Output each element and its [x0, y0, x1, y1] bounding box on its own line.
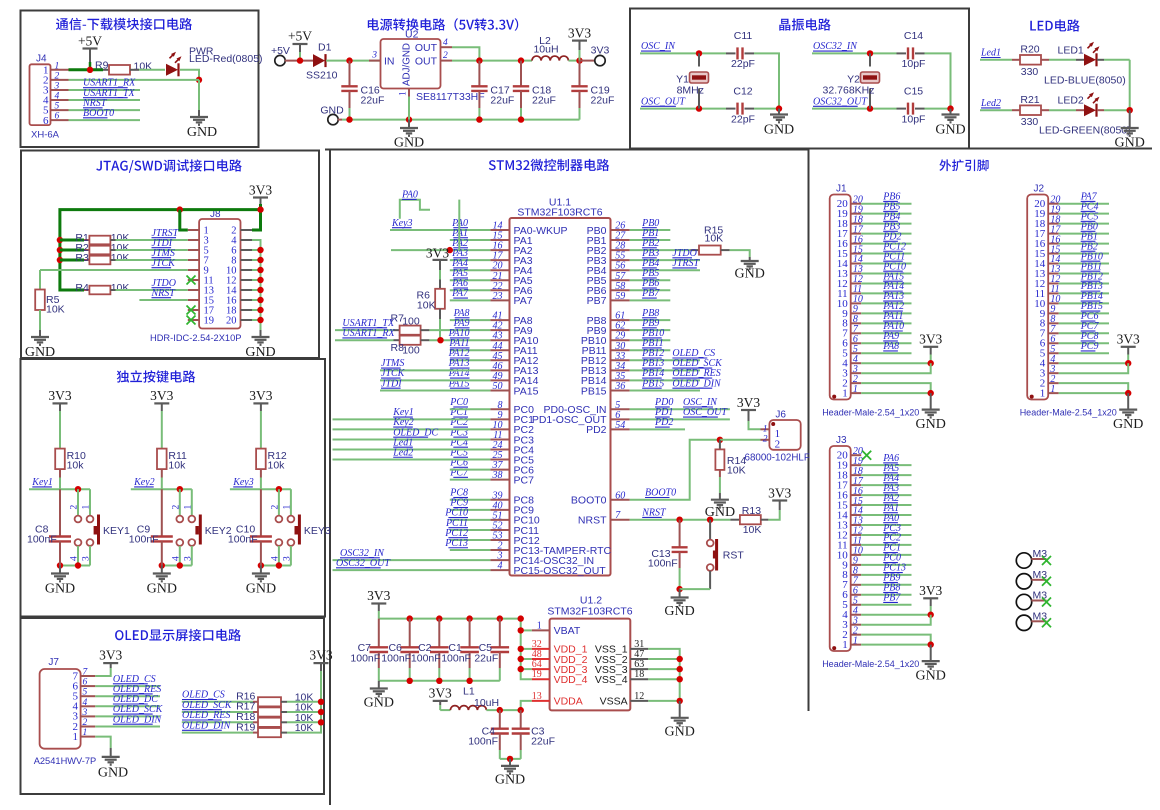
- wire D1 to U2 IN: [326, 60, 380, 62]
- wire J1 pin11 PA14: [861, 292, 911, 294]
- wire J2 pin19 PC4: [1059, 213, 1109, 215]
- wire PB3: [630, 259, 700, 261]
- capacitor C12 right lead: [745, 108, 755, 110]
- node PA5: [451, 268, 468, 279]
- J7 pin 6 stub: [81, 685, 96, 687]
- node OLED_DIN: [182, 720, 232, 731]
- svg-text:1: 1: [82, 505, 92, 510]
- J7 pin 3 stub: [81, 715, 96, 717]
- wire J1 pin12 PA15: [861, 282, 911, 284]
- node PC8: [449, 488, 468, 499]
- capacitor C7 bottom lead: [378, 652, 380, 668]
- capacitor C9 bottom lead: [161, 541, 163, 565]
- junction rail y=310: [257, 307, 263, 313]
- U1.1 pin 43 stub: [490, 339, 509, 341]
- U1.1 pin 33 stub: [611, 359, 630, 361]
- svg-text:PA8: PA8: [882, 341, 899, 352]
- wire U1.2 top rail: [379, 618, 521, 620]
- capacitor C16 bottom lead: [349, 91, 351, 108]
- LED LED1 left lead: [1076, 59, 1084, 61]
- node PA3: [882, 483, 899, 494]
- svg-text:GND: GND: [147, 582, 177, 597]
- wire J8 pin to rail y=270: [252, 269, 261, 271]
- capacitor C2 top lead: [438, 619, 440, 648]
- power 3V3 (power out): [568, 26, 591, 41]
- svg-text:HDR-IDC-2.54-2X10P: HDR-IDC-2.54-2X10P: [150, 333, 241, 343]
- svg-text:J3: J3: [836, 435, 847, 446]
- J2 pin 2 stub: [1048, 382, 1059, 384]
- node PC5: [1080, 211, 1099, 222]
- svg-text:3V3: 3V3: [919, 332, 942, 347]
- J8 pin 16 stub: [241, 299, 253, 301]
- svg-text:SE8117T33HF: SE8117T33HF: [416, 91, 485, 103]
- power 3V3 (PA2/R6): [426, 246, 449, 261]
- svg-text:1: 1: [282, 505, 292, 510]
- J8 pin 18 stub: [241, 309, 253, 311]
- wire J2 pin11 PB13: [1059, 292, 1109, 294]
- svg-text:100nF: 100nF: [350, 653, 380, 665]
- svg-text:1: 1: [399, 91, 409, 96]
- svg-text:GND: GND: [916, 417, 946, 432]
- ground (Y1): [764, 115, 794, 138]
- node PD0: [654, 397, 673, 408]
- wire PB7: [630, 299, 671, 301]
- J1 pin 11 stub: [851, 292, 862, 294]
- wire J8 pin to rail y=250: [252, 249, 261, 251]
- J8 pin 17 stub: [188, 309, 199, 311]
- U1.1 pin 60 stub: [611, 499, 630, 501]
- wire J3 pin11 PC2: [861, 544, 911, 546]
- svg-text:10K: 10K: [111, 282, 130, 294]
- wire OSC32_OUT: [812, 108, 897, 110]
- node PC10: [882, 261, 906, 272]
- J1 pin 2 stub: [851, 382, 862, 384]
- svg-text:3V3: 3V3: [99, 648, 122, 663]
- resistor R3 right stub: [110, 259, 115, 261]
- U1.1 pin 10 stub: [490, 428, 509, 430]
- wire PB11: [630, 349, 671, 351]
- node OLED_SCK: [672, 358, 723, 369]
- wire VSS rail: [648, 649, 679, 701]
- node Led2: [980, 98, 1001, 109]
- wire OSC_OUT: [640, 108, 726, 110]
- wire gnd stem: [161, 566, 163, 574]
- node PC7: [449, 467, 469, 478]
- ground (JTAG right): [245, 337, 275, 360]
- svg-text:60: 60: [615, 490, 625, 501]
- U1.1 pin 3 stub: [490, 559, 509, 561]
- J2 pin 1 stub: [1048, 392, 1059, 394]
- LED LED2 right lead: [1097, 109, 1104, 111]
- wire NRST row: [630, 519, 731, 521]
- svg-text:100nF: 100nF: [648, 557, 678, 569]
- power 3V3 (VDDA): [429, 686, 452, 701]
- node USART1_TX: [83, 88, 136, 99]
- wire gnd stem: [749, 257, 751, 261]
- wire J2 pin13 PB11: [1059, 272, 1109, 274]
- mounting hole M3 #2: [1016, 569, 1047, 589]
- capacitor C11 left lead: [726, 52, 736, 54]
- section frame: OLED box: [21, 618, 325, 794]
- wire KEY2 pin3 down: [191, 546, 193, 566]
- U1.1 pin 42 stub: [490, 329, 509, 331]
- U1.1 pin 4 stub: [490, 569, 509, 571]
- capacitor C10 top lead: [260, 489, 262, 536]
- wire PB6: [630, 289, 671, 291]
- section frame: STM32 area left border: [329, 150, 331, 806]
- node PB14: [1080, 291, 1103, 302]
- svg-text:J2: J2: [1034, 184, 1045, 195]
- svg-text:10K: 10K: [417, 299, 436, 311]
- J3 pin 17 stub: [851, 484, 862, 486]
- J2 pin 16 stub: [1048, 243, 1059, 245]
- wire +5V port to D1: [285, 60, 313, 62]
- wire gnd port stub: [338, 119, 342, 121]
- wire to KEY3 pin1: [290, 489, 292, 515]
- resistor R15 right stub: [721, 249, 730, 251]
- ground (J3): [916, 661, 946, 684]
- node PA13: [448, 358, 470, 369]
- node PA0: [451, 218, 468, 229]
- node PC10: [444, 508, 468, 519]
- svg-text:3V3: 3V3: [150, 388, 173, 403]
- svg-text:1: 1: [853, 635, 858, 646]
- node OSC_OUT: [683, 407, 728, 418]
- wire J3 pin18 PA5: [861, 474, 911, 476]
- ground (J1): [916, 410, 946, 433]
- J2 pin 5 stub: [1048, 352, 1059, 354]
- junction VBAT: [518, 627, 524, 633]
- wire ground rail (power): [342, 119, 580, 121]
- wire USART1_TX to R7: [335, 329, 394, 331]
- node PA1: [882, 503, 899, 514]
- node PB2: [1080, 241, 1098, 252]
- U1.1 pin 2 stub: [490, 549, 509, 551]
- wire 3V3 stem: [579, 41, 581, 50]
- node PA9: [453, 318, 470, 329]
- wire C14 to gnd rail: [925, 53, 951, 108]
- wire R16 to 3V3 rail: [287, 701, 321, 703]
- U1.2 pin 1 stub: [532, 629, 550, 631]
- node PA2: [882, 493, 899, 504]
- wire KEY1 pin4 down: [77, 546, 79, 566]
- capacitor C12: [738, 103, 743, 115]
- wire J2 pin15 PB2: [1059, 253, 1109, 255]
- power 3V3 (J1): [919, 332, 942, 347]
- node PA9: [882, 331, 899, 342]
- wire J2 pin20 PA7: [1059, 203, 1109, 205]
- U1.1 pin 17 stub: [490, 259, 509, 261]
- svg-text:3: 3: [371, 51, 377, 61]
- U1.1 pin 15 stub: [490, 239, 509, 241]
- svg-text:KEY1: KEY1: [103, 525, 130, 537]
- svg-text:VSSA: VSSA: [600, 696, 628, 708]
- J3 pin 16 stub: [851, 494, 862, 496]
- J8 pin 19 stub: [188, 319, 199, 321]
- wire PA3: [450, 259, 491, 261]
- capacitor C1 top lead: [469, 619, 471, 648]
- ground (key1): [45, 574, 75, 597]
- wire bus to J8 pin1 (thick): [180, 210, 188, 230]
- node PA4: [451, 258, 468, 269]
- wire PC0: [450, 408, 491, 410]
- node PA10: [448, 328, 470, 339]
- svg-text:PC13: PC13: [444, 538, 468, 549]
- no-connect J8 pin11: [187, 276, 196, 285]
- wire J1 pin10 PA13: [861, 302, 911, 304]
- svg-text:R9: R9: [95, 60, 109, 72]
- wire 3V3 bus left loop (thick): [60, 210, 261, 290]
- junction VDD_2: [518, 656, 524, 662]
- capacitor C5: [491, 647, 510, 652]
- node PB9: [882, 573, 900, 584]
- J2 pin 3 stub: [1048, 372, 1059, 374]
- wire J3 pin17 PA4: [861, 484, 911, 486]
- wire J1 pin16 PD2: [861, 243, 911, 245]
- junction rail y=290: [257, 287, 263, 293]
- wire 3V3 stem: [378, 604, 380, 612]
- J2 pin 13 stub: [1048, 272, 1059, 274]
- wire J3 pin7 PB9: [861, 584, 911, 586]
- mounting hole M3 #3: [1016, 590, 1047, 610]
- node PB3: [641, 248, 659, 259]
- wire J1 pin4 3V3: [861, 362, 931, 364]
- svg-text:1: 1: [763, 425, 768, 435]
- U1.1 pin 58 stub: [611, 289, 630, 291]
- J2 pin 8 stub: [1048, 322, 1059, 324]
- wire J1 pin5 PA8: [861, 352, 911, 354]
- svg-text:10K: 10K: [111, 252, 130, 264]
- svg-text:3V3: 3V3: [426, 246, 449, 261]
- node PC2: [449, 417, 468, 428]
- node PC5: [449, 447, 468, 458]
- svg-text:3V3: 3V3: [768, 486, 791, 501]
- wire to 3V3 port: [580, 60, 596, 62]
- wire PB8: [630, 319, 671, 321]
- wire VSS_4: [648, 678, 679, 680]
- node Key3: [391, 218, 413, 229]
- U1.1 pin 46 stub: [490, 369, 509, 371]
- J1 pin 7 stub: [851, 332, 862, 334]
- junction C18 gnd: [518, 116, 524, 122]
- capacitor C9 top lead: [161, 489, 163, 536]
- svg-text:22uF: 22uF: [361, 95, 385, 107]
- wire J3 pin13 PA0: [861, 524, 911, 526]
- wire PD2: [630, 428, 685, 430]
- svg-text:C12: C12: [733, 86, 752, 98]
- capacitor C4: [491, 729, 509, 734]
- svg-text:OLED_DIN: OLED_DIN: [113, 714, 163, 725]
- J3 pin 15 stub: [851, 504, 862, 506]
- button RST lead top: [709, 520, 711, 540]
- title: comm-download module interface circuit: [56, 18, 192, 30]
- svg-text:1: 1: [1040, 388, 1046, 400]
- svg-text:STM32F103RCT6: STM32F103RCT6: [547, 606, 632, 618]
- node OSC_IN: [683, 397, 718, 408]
- wire Key2 node: [131, 488, 192, 490]
- J3 pin 19 stub: [851, 464, 862, 466]
- svg-text:22uF: 22uF: [531, 736, 555, 748]
- junction J3 gnd: [928, 641, 934, 647]
- svg-text:3V3: 3V3: [429, 686, 452, 701]
- J8 pin 8 stub: [241, 259, 253, 261]
- svg-text:100nF: 100nF: [228, 533, 258, 545]
- wire PB12: [630, 359, 700, 361]
- node PB0: [1080, 221, 1098, 232]
- J1 pin 13 stub: [851, 272, 862, 274]
- J1 pin 15 stub: [851, 253, 862, 255]
- J2 pin 14 stub: [1048, 263, 1059, 265]
- resistor R10 bottom lead: [59, 469, 61, 477]
- J1 pin 19 stub: [851, 213, 862, 215]
- J3 pin 2 stub: [851, 634, 862, 636]
- wire PB14: [630, 379, 700, 381]
- resistor R1 left stub: [84, 239, 89, 241]
- resistor R10: [55, 449, 65, 470]
- title: JTAG/SWD debug interface circuit: [96, 159, 242, 173]
- power +5V (power section): [288, 29, 312, 45]
- svg-text:GND: GND: [1115, 136, 1145, 151]
- capacitor C13: [672, 547, 688, 552]
- node PB8: [641, 308, 659, 319]
- junction +5V stem: [297, 57, 303, 63]
- wire R15 to GND: [730, 250, 750, 257]
- junction C17 gnd: [476, 116, 482, 122]
- wire OLED_DIN to R19: [182, 732, 253, 734]
- junction C18: [518, 57, 524, 63]
- wire NRST to J8 pin15: [139, 299, 187, 301]
- wire R17 to 3V3 rail: [287, 711, 321, 713]
- svg-text:VDDA: VDDA: [554, 696, 583, 708]
- capacitor C14: [908, 47, 913, 59]
- ground (VDDA): [495, 766, 525, 788]
- svg-text:3V3: 3V3: [48, 388, 71, 403]
- J3 pin 12 stub: [851, 534, 862, 536]
- resistor R9 right stub: [130, 69, 139, 71]
- U1.1 pin 26 stub: [611, 229, 630, 231]
- resistor R7 left stub: [394, 329, 400, 331]
- crystal Y2 bottom lead: [869, 89, 871, 109]
- node PB13: [1080, 281, 1103, 292]
- wire J3 pin16 PA3: [861, 494, 911, 496]
- node PB5: [882, 201, 900, 212]
- svg-text:10K: 10K: [705, 232, 724, 244]
- svg-text:PC7: PC7: [514, 474, 535, 486]
- wire RST to C13 gnd: [680, 588, 711, 590]
- svg-text:2: 2: [83, 718, 88, 728]
- junction bottom KEY2: [177, 562, 183, 568]
- svg-text:3: 3: [54, 81, 60, 91]
- junction C6 bottom: [407, 678, 413, 684]
- svg-text:GND: GND: [364, 696, 394, 711]
- J4 pin 6 stub: [51, 119, 69, 121]
- node Key2: [392, 417, 414, 428]
- node PA15: [448, 378, 470, 389]
- wire J7 OLED_SCK: [95, 715, 160, 717]
- resistor R3: [89, 256, 110, 265]
- section frame: STM32/expansion divider: [808, 150, 810, 712]
- capacitor C7 top lead: [378, 619, 380, 648]
- capacitor C18: [513, 86, 529, 91]
- wire gnd stem (J3): [930, 645, 932, 662]
- wire LED1 to gnd riser: [1104, 59, 1130, 61]
- wire to KEY2 pin1: [191, 489, 193, 515]
- capacitor C7: [370, 647, 389, 652]
- node PA11: [448, 338, 469, 349]
- resistor R13 right stub: [761, 519, 769, 521]
- svg-text:GND: GND: [1113, 417, 1143, 432]
- J2 pin 4 stub: [1048, 362, 1059, 364]
- svg-text:1: 1: [842, 639, 848, 651]
- crystal Y2: [861, 72, 880, 83]
- node PA14: [448, 368, 470, 379]
- node JTMS: [152, 248, 175, 259]
- resistor R20 left stub: [1012, 59, 1020, 61]
- wire J3 pin2 gnd: [861, 635, 931, 645]
- wire Key3/PA0 row: [390, 229, 490, 231]
- wire gnd stem (LED): [1129, 110, 1131, 128]
- svg-text:PB15: PB15: [581, 385, 607, 397]
- svg-text:22pF: 22pF: [731, 58, 755, 70]
- ground (Y2): [935, 115, 965, 138]
- junction VDD_1: [518, 646, 524, 652]
- wire J3 pin15 PA2: [861, 504, 911, 506]
- U1.1 pin 21 stub: [490, 279, 509, 281]
- title: power conversion circuit 5V to 3.3V: [368, 18, 518, 31]
- J3 pin 20 stub: [851, 454, 862, 456]
- svg-text:1: 1: [183, 505, 193, 510]
- capacitor C2 bottom lead: [438, 652, 440, 668]
- J1 pin 12 stub: [851, 282, 862, 284]
- svg-text:54: 54: [615, 420, 625, 431]
- svg-text:+5V: +5V: [268, 45, 290, 57]
- title: expansion pins: [939, 159, 988, 171]
- node PA6: [451, 278, 468, 289]
- resistor R16: [258, 697, 281, 706]
- wire J8 pin to rail y=320: [252, 319, 261, 321]
- junction C2 top: [436, 615, 442, 621]
- capacitor C6: [400, 647, 419, 652]
- node PA7: [1080, 192, 1098, 203]
- wire JTCK: [380, 379, 490, 381]
- junction gnd rail Y2: [947, 105, 953, 111]
- junction rail y=250: [257, 247, 263, 253]
- node PB14: [641, 368, 664, 379]
- wire VSSA: [648, 700, 679, 702]
- svg-text:R20: R20: [1020, 44, 1039, 56]
- wire J2 pin17 PB0: [1059, 233, 1109, 235]
- svg-text:R13: R13: [742, 505, 761, 517]
- svg-text:5: 5: [55, 102, 60, 112]
- resistor R21 right stub: [1041, 109, 1049, 111]
- node PB1: [1080, 231, 1098, 242]
- wire +5V stem: [299, 44, 301, 52]
- U1.1 pin 59 stub: [611, 299, 630, 301]
- connector J1: [830, 184, 851, 400]
- svg-text:2: 2: [763, 434, 768, 444]
- junction bottom KEY3: [276, 562, 282, 568]
- wire PB10: [630, 339, 671, 341]
- wire gnd stem (J1): [930, 393, 932, 410]
- wire J3 pin3 3V3: [861, 615, 931, 625]
- LED LED1 right lead: [1097, 59, 1104, 61]
- svg-text:J6: J6: [775, 410, 786, 421]
- svg-text:GND: GND: [916, 669, 946, 684]
- no-connect M3 #1: [1042, 556, 1051, 565]
- connector J3: [830, 435, 851, 651]
- J3 pin 3 stub: [851, 624, 862, 626]
- svg-text:BOOT0: BOOT0: [571, 495, 607, 507]
